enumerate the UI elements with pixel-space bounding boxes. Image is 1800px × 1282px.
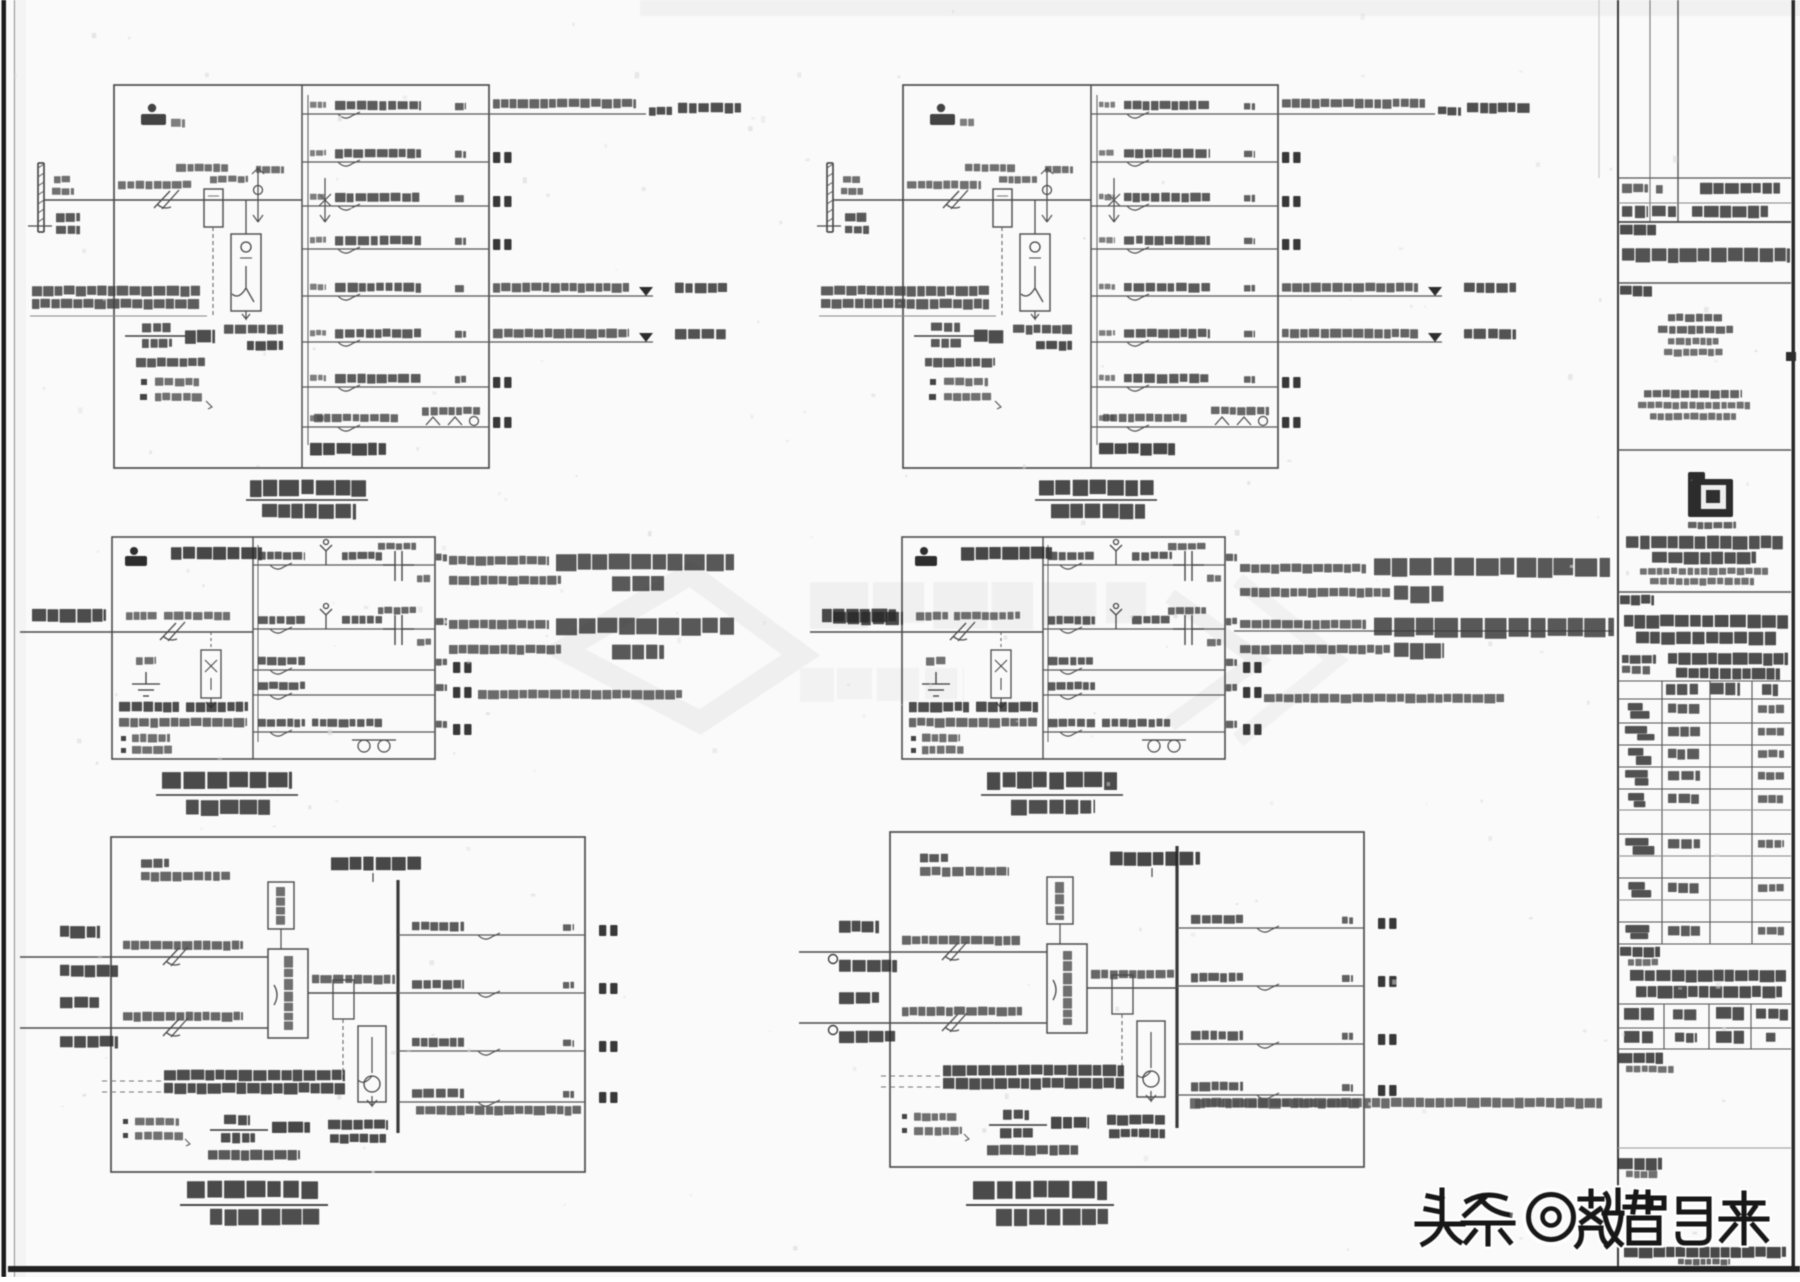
feeder W1 destination label 2 (1467, 103, 1530, 114)
feeder W8 kw label (422, 407, 480, 416)
feeder W8 circuit id (1099, 415, 1114, 421)
earthing label (926, 657, 945, 666)
feeder W4 load marks (599, 1092, 618, 1103)
feeder W5 load label (1464, 283, 1516, 293)
pilot device text (1055, 882, 1064, 920)
drawing no sub text (1626, 1171, 1657, 1178)
feeder W6 wire (302, 341, 489, 343)
feeder W4 breaker label (1124, 236, 1210, 246)
feeder W2 wire (398, 992, 585, 994)
fuse earth arrow (996, 698, 1006, 708)
feeder W5 breaker (1127, 294, 1149, 300)
feeder W5 extra label (312, 719, 382, 728)
meter link dashed (342, 1019, 344, 1081)
feeder W1 breaker label (258, 552, 305, 561)
feeder W4 wire (1043, 694, 1225, 696)
faint watermark diamond (563, 574, 801, 722)
feeder W2 breaker label (258, 616, 305, 624)
incomer 1 cable label (123, 941, 243, 951)
feeder W1 transformer label (378, 543, 416, 550)
panel title (250, 480, 366, 497)
feeder W4 breaker (338, 247, 360, 253)
incoming feeder id label (822, 609, 896, 623)
construction unit name (1622, 248, 1790, 263)
feeder W1 breaker (478, 933, 500, 939)
feeder W1 destination label (649, 107, 672, 116)
incomer 2 name dark (60, 997, 99, 1008)
panel title underline (981, 794, 1123, 796)
load description text (449, 620, 549, 630)
panel title (187, 1181, 318, 1199)
pilot drop wire (280, 929, 282, 949)
feeder W8 left note (1103, 414, 1187, 423)
feeder W3 breaker label (412, 1038, 464, 1047)
feeder W2 wire (1177, 985, 1364, 987)
ATS output label (312, 975, 395, 985)
incoming isolator QS (154, 190, 179, 209)
signature date 5 (1758, 795, 1783, 803)
panel enclosure outline (111, 837, 585, 1172)
riser bottom tick (28, 225, 52, 227)
PE note row (140, 394, 147, 400)
feeder W4 circuit id (1099, 237, 1115, 243)
main breaker label (965, 164, 1015, 172)
feeder W4 load marks (493, 239, 512, 250)
bus tap fuse cross (1108, 194, 1120, 206)
title block faint outer line (1598, 0, 1600, 178)
PT symbol arrows (252, 168, 264, 222)
riser busbar hatch (38, 164, 44, 222)
feeder W8 breaker (338, 425, 360, 431)
incomer 1 isolator (942, 942, 967, 961)
load marks (1243, 662, 1262, 673)
panel section divider bus (301, 85, 303, 468)
title block frame (1599, 0, 1796, 1266)
rev row 1 cell a (1622, 184, 1648, 193)
scan shading top (640, 0, 1800, 16)
header stem line (1151, 868, 1153, 877)
incomer 2 name dark (839, 992, 879, 1004)
feeder W4 phase mark (436, 684, 447, 691)
panel header dark label (171, 547, 262, 561)
section label major in charge (1620, 947, 1660, 958)
design unit addr text 1 (1644, 390, 1742, 399)
feeder W1 phase mark (1226, 554, 1237, 562)
feeder W8 wire (302, 426, 489, 428)
incomer 2 source circle (829, 1026, 838, 1035)
feeder W5 breaker label (1048, 719, 1095, 728)
metering cubicle (1137, 1021, 1165, 1097)
feeder W4 breaker (270, 693, 292, 699)
feeder W2 phase mark (436, 618, 447, 625)
feeder W5 breaker (338, 294, 360, 300)
panel 3-20AL block (817, 85, 1530, 519)
neutral note row (141, 379, 147, 385)
feeder W6 drop flag (1428, 333, 1442, 342)
rev row 2 cell a (1622, 206, 1648, 218)
breaker frame fraction bottom (1000, 1128, 1033, 1138)
feeder W1 motor symbol (1110, 540, 1122, 566)
feeder W1 phase mark (563, 924, 574, 931)
feeder W3 wire (302, 205, 489, 207)
incoming cable label 2 (954, 612, 1020, 621)
feeder W3 breaker label (1048, 657, 1093, 665)
neutral note (902, 1114, 907, 1119)
incoming wire (810, 631, 1043, 633)
metering hook (1137, 1032, 1151, 1077)
incoming cable label 2 (164, 612, 230, 621)
feeder W4 breaker label (412, 1089, 464, 1099)
panel title underline (1035, 499, 1157, 501)
feeder W4 breaker label (1048, 682, 1095, 691)
feeder W2 starter label (1132, 616, 1170, 625)
feeder W7 breaker (338, 385, 360, 391)
riser label 2 (52, 188, 74, 195)
signature stamp 8 (1625, 925, 1649, 939)
feeder bus line (1096, 95, 1098, 445)
feeder W1 phase mark (455, 103, 466, 110)
surge arrester label (1045, 166, 1073, 173)
feeder W1 destination label (1438, 107, 1461, 116)
feeder W2 aux contact mark (417, 639, 431, 646)
feeder W3 wire (398, 1050, 585, 1052)
panel enclosure outline (903, 85, 1278, 468)
load description text (612, 576, 664, 591)
light divider y1148 (1618, 1147, 1791, 1149)
cable schedule dark text (164, 1070, 345, 1082)
panel corner label 2 (141, 872, 230, 882)
riser bottom tick (817, 225, 841, 227)
cubicle drop arrow (242, 311, 250, 319)
feeder W5 phase mark (436, 721, 447, 728)
cable schedule underline (819, 315, 996, 317)
panel title underline (246, 499, 368, 501)
feeder W3 wire (1091, 205, 1278, 207)
feeder W3 wire (1177, 1043, 1364, 1045)
main breaker label 2 (210, 176, 248, 184)
feeder W2 motor symbol (1110, 604, 1122, 630)
feeder W3 circuit id (1099, 194, 1115, 201)
feeder W6 breaker (1127, 340, 1149, 346)
incoming isolator QS (943, 190, 968, 209)
cable schedule dark text 2 (943, 1078, 1124, 1090)
feeder W2 phase mark (455, 151, 466, 158)
feeder W1 breaker label (1191, 915, 1243, 924)
incomer 2 id dark (60, 1036, 118, 1049)
load description text (1240, 564, 1366, 574)
signature date 7 (1758, 884, 1784, 892)
feeder W2 phase mark (1226, 618, 1237, 626)
feeder W7 phase mark (455, 376, 466, 384)
feeder W3 breaker (1060, 668, 1082, 674)
rating dark label (1051, 1117, 1089, 1129)
title block right border (1792, 0, 1796, 1266)
incomer 2 isolator (163, 1018, 188, 1037)
drawing ref label (987, 1145, 1078, 1156)
feeder W1 breaker label (335, 101, 421, 111)
design institute logo caption (1688, 522, 1736, 530)
bus tap arrow (320, 215, 330, 222)
feeder W1 external wire (1278, 113, 1435, 115)
feeder W2 wire (1091, 161, 1278, 163)
feeder W1 breaker (1060, 563, 1082, 569)
feeder W2 load marks (599, 983, 618, 994)
feeder W3 breaker (478, 1049, 500, 1055)
section divider y283 (1618, 282, 1791, 284)
signature name 4 (1668, 771, 1700, 781)
PE note (911, 748, 916, 753)
breaker frame fraction bottom (221, 1133, 255, 1144)
feeder W4 phase mark (455, 238, 466, 245)
fuse earth arrow (206, 698, 216, 708)
feeder W4 breaker (1060, 693, 1082, 699)
load marks (1243, 724, 1262, 735)
feeder W8 lamp symbols (426, 417, 479, 426)
bus tap arrow (1109, 215, 1119, 222)
feeder W5 extra label (1102, 719, 1170, 728)
border frame left edge (2, 0, 7, 1277)
feeder W7 phase mark (1244, 376, 1255, 383)
incomer 1 wire (799, 951, 1047, 953)
load marks (453, 662, 472, 673)
main breaker label (176, 164, 228, 172)
feeder W2 breaker (478, 991, 500, 997)
feeder W2 transformer label (378, 607, 416, 615)
feeder W4 breaker label (335, 236, 421, 246)
bottom note dark (119, 702, 179, 713)
feeder W2 breaker label (1048, 616, 1095, 625)
feeder W3 wire (1043, 669, 1225, 671)
feeder W1 transformer label (1168, 543, 1206, 550)
feeder W7 load marks (1282, 377, 1301, 388)
panel title (987, 772, 1117, 790)
riser voltage label (845, 213, 866, 222)
metering CT circle (364, 1076, 380, 1092)
rev row 1 cell b (1656, 185, 1663, 193)
watermark halo (1417, 1190, 1767, 1246)
signature name 7 (1668, 883, 1699, 894)
riser busbar hatch (827, 164, 833, 222)
feeder W2 load marks (1378, 976, 1397, 987)
breaker frame fraction top (224, 1115, 250, 1126)
signature date 2 (1758, 728, 1784, 736)
feeder W5 breaker label (335, 283, 421, 293)
load marks (453, 687, 472, 698)
feeder W7 wire (1091, 386, 1278, 388)
ATS output label (1091, 970, 1174, 980)
signature date 4 (1758, 772, 1784, 780)
feeder W5 external wire (489, 295, 653, 297)
signature stamp 6 (1625, 838, 1654, 855)
metering hook (358, 1037, 372, 1082)
design unit addr text 3 (1650, 413, 1736, 421)
feeder cable schedule text 2 (32, 299, 199, 310)
earthing symbol (922, 672, 950, 696)
issue row 2 cells (1624, 1031, 1775, 1044)
feeder external wire (1234, 630, 1612, 632)
panel enclosure outline (890, 832, 1364, 1167)
signature name 2 (1668, 727, 1700, 737)
rev row 2 cell b (1652, 206, 1676, 217)
drawing ref label (208, 1150, 300, 1161)
feeder W3 phase mark (1342, 1033, 1353, 1040)
pilot device text (276, 887, 285, 925)
feeder W3 breaker label (335, 193, 419, 203)
title block row line y222 (1618, 221, 1791, 223)
meter drop dashed (1000, 632, 1002, 650)
feeder W6 circuit id (1099, 330, 1115, 336)
design unit cert text 2 (1658, 326, 1733, 334)
cable spec dark label (1013, 325, 1072, 335)
feeder W5 wire (1043, 731, 1225, 733)
neutral note (123, 1119, 128, 1124)
feeder W1 destination label 2 (678, 103, 741, 114)
feeder W4 load marks (1378, 1085, 1397, 1096)
design unit addr text 2 (1638, 402, 1750, 410)
panel header dark label (331, 857, 421, 871)
panel header dark label (961, 547, 1052, 561)
panel enclosure outline (114, 85, 489, 468)
feeder W1 aux contact mark (1207, 575, 1221, 582)
load marks (1243, 687, 1262, 698)
feeder W3 phase mark (1226, 659, 1237, 666)
border frame bottom edge (8, 1266, 1800, 1272)
signature date 3 (1758, 750, 1784, 758)
feeder W5 circuit id (1099, 284, 1115, 290)
riser busbar (827, 163, 833, 232)
incomer 2 cable label (123, 1012, 243, 1022)
project subtitle line 1 (1630, 970, 1786, 983)
feeder W1 breaker (338, 112, 360, 118)
design institute name line 1 (1626, 536, 1783, 550)
signature stamp 1 (1628, 703, 1650, 719)
feeder W7 load marks (493, 377, 512, 388)
incomer 2 wire (20, 1027, 268, 1029)
feeder bus line (257, 545, 259, 742)
subproject label cell 2 (1622, 666, 1650, 675)
feeder W5 external cable label (1282, 283, 1418, 293)
rating dark label (272, 1122, 310, 1133)
signature stamp 4 (1625, 770, 1648, 786)
panel section divider bus (1090, 85, 1092, 468)
bus tap fuse stem (1113, 178, 1115, 222)
feeder W5 bell symbols (1142, 740, 1186, 752)
load description text (449, 556, 549, 566)
panel title (162, 772, 292, 789)
signature name 1 (1668, 704, 1699, 714)
feeder W1 phase mark (1342, 917, 1353, 924)
feeder W2 load marks (1282, 152, 1301, 163)
feeder W2 motor symbol (320, 604, 332, 630)
feeder W3 breaker (1127, 204, 1149, 210)
CT drop wire (1034, 200, 1036, 234)
rev row 1 cell c (1700, 183, 1780, 195)
feeder W4 wire (1177, 1094, 1364, 1096)
feeder W2 circuit id (310, 150, 326, 156)
design institute name en 2 (1650, 578, 1754, 586)
feeder W8 left note (314, 414, 398, 422)
system voltage label (136, 358, 205, 368)
cable spec dark label 2 (247, 341, 283, 351)
feeder W8 lamp symbols (1215, 417, 1268, 426)
cubicle model dark 2 (330, 1134, 386, 1144)
feeder W4 phase mark (563, 1091, 574, 1098)
feeder W1 load marks (1378, 918, 1397, 929)
signature date 1 (1758, 705, 1784, 714)
feeder W6 external cable label (493, 329, 629, 339)
metering CT circle (1143, 1071, 1159, 1087)
riser busbar (38, 163, 44, 232)
cable spec dark label 2 (1036, 341, 1072, 351)
feeder W3 phase mark (563, 1040, 574, 1047)
feeder W3 load marks (1378, 1034, 1397, 1045)
feeder W8 kw label (1211, 407, 1269, 416)
feeder bus bar (1175, 846, 1178, 1128)
earthing symbol (132, 672, 160, 696)
signature name 6 (1668, 839, 1700, 849)
panel header dark label (1110, 852, 1200, 867)
feeder W1 circuit id (1099, 102, 1115, 108)
main switch dark label (185, 330, 215, 344)
right edge tick mark (1786, 352, 1796, 361)
load description text (556, 618, 734, 636)
pilot device box (1047, 877, 1073, 924)
feeder W7 breaker label (335, 374, 421, 384)
ATS box (1047, 944, 1087, 1033)
feeder W6 wire (1091, 341, 1278, 343)
panel 3-20AL-1 block (810, 537, 1614, 816)
pilot drop wire (1059, 924, 1061, 944)
panel logo symbol (125, 547, 147, 566)
feeder W1 phase mark (1244, 103, 1255, 110)
feeder W2 aux contact mark (1207, 639, 1221, 646)
feeder W6 phase mark (455, 331, 466, 338)
bus tap fuse stem (324, 178, 326, 222)
pilot device box (268, 882, 294, 929)
riser label (54, 176, 70, 183)
feeder W3 load marks (599, 1041, 618, 1052)
feeder W2 breaker (338, 160, 360, 166)
incoming feeder id label (32, 609, 106, 623)
title block col line a (1649, 0, 1651, 222)
signature date 8 (1758, 927, 1784, 935)
watermark text toutiao (1417, 1190, 1767, 1246)
feeder W2 breaker label (1124, 149, 1210, 158)
ATS output wire (308, 992, 398, 994)
feeder W2 phase mark (1244, 151, 1255, 158)
feeder W1 breaker (270, 563, 292, 569)
section divider y590 (1618, 591, 1791, 593)
feeder W5 phase mark (1244, 285, 1255, 292)
feeder W1 starter label (1132, 552, 1172, 561)
feeder W7 wire (302, 386, 489, 388)
load description text (1240, 645, 1390, 655)
feeder W1 starter label (342, 552, 382, 561)
signature name 5 (1668, 794, 1699, 804)
feeder cable schedule text (821, 286, 989, 297)
breaker frame fraction top (1003, 1110, 1029, 1120)
bottom note dark 2 (976, 702, 1038, 713)
feeder W1 breaker label (1048, 552, 1094, 560)
main switch frame denominator (142, 339, 172, 348)
feeder W5 drop flag (639, 287, 653, 296)
load description text (556, 554, 734, 572)
feeder W2 starter label (342, 616, 382, 624)
fuse box (201, 650, 221, 698)
feeder W1 external wire (489, 113, 646, 115)
feeder W3 breaker (270, 668, 292, 674)
feeder W2 wire (302, 161, 489, 163)
